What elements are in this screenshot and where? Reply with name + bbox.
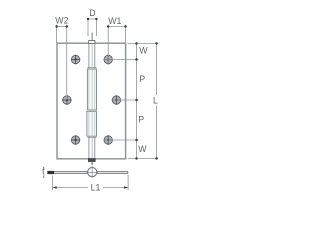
svg-text:D: D (89, 8, 95, 18)
chain dimension line W P P W (136, 44, 138, 159)
dimension D (88, 19, 96, 36)
screw hole middle right (112, 95, 122, 105)
svg-text:P: P (139, 74, 145, 84)
svg-text:W: W (139, 45, 148, 55)
svg-text:W1: W1 (108, 16, 121, 26)
pin centerline (91, 33, 93, 167)
screw hole top left (62, 55, 121, 145)
pin inner lines through knuckles (89, 69, 95, 136)
svg-text:L1: L1 (91, 182, 101, 192)
svg-text:W: W (138, 144, 147, 154)
pin axis centerline (91, 44, 93, 159)
hinge plate outline (57, 43, 126, 159)
screw hole bottom left (71, 135, 81, 145)
dimension W1 (108, 25, 125, 66)
pin cap bottom (88, 159, 95, 162)
right side extension lines (104, 44, 159, 159)
svg-text:L: L (153, 95, 158, 105)
side view plate (48, 172, 128, 174)
svg-text:W2: W2 (55, 16, 68, 26)
knuckle 1 (87, 69, 96, 110)
side view bent end (48, 171, 55, 174)
screw hole middle left (62, 95, 72, 105)
screw hole bottom right (103, 135, 113, 145)
pin (exposed sections) (89, 44, 95, 159)
dimension W2 (57, 25, 67, 101)
knuckle joint chamfer lines (87, 68, 96, 138)
pin cap top (89, 41, 95, 44)
side view knuckle circle (86, 167, 98, 178)
knuckle 2 (87, 111, 97, 136)
screw hole top right (103, 55, 113, 65)
dimension L1 (53, 175, 129, 190)
svg-text:P: P (138, 115, 144, 125)
dimension L (156, 44, 158, 159)
